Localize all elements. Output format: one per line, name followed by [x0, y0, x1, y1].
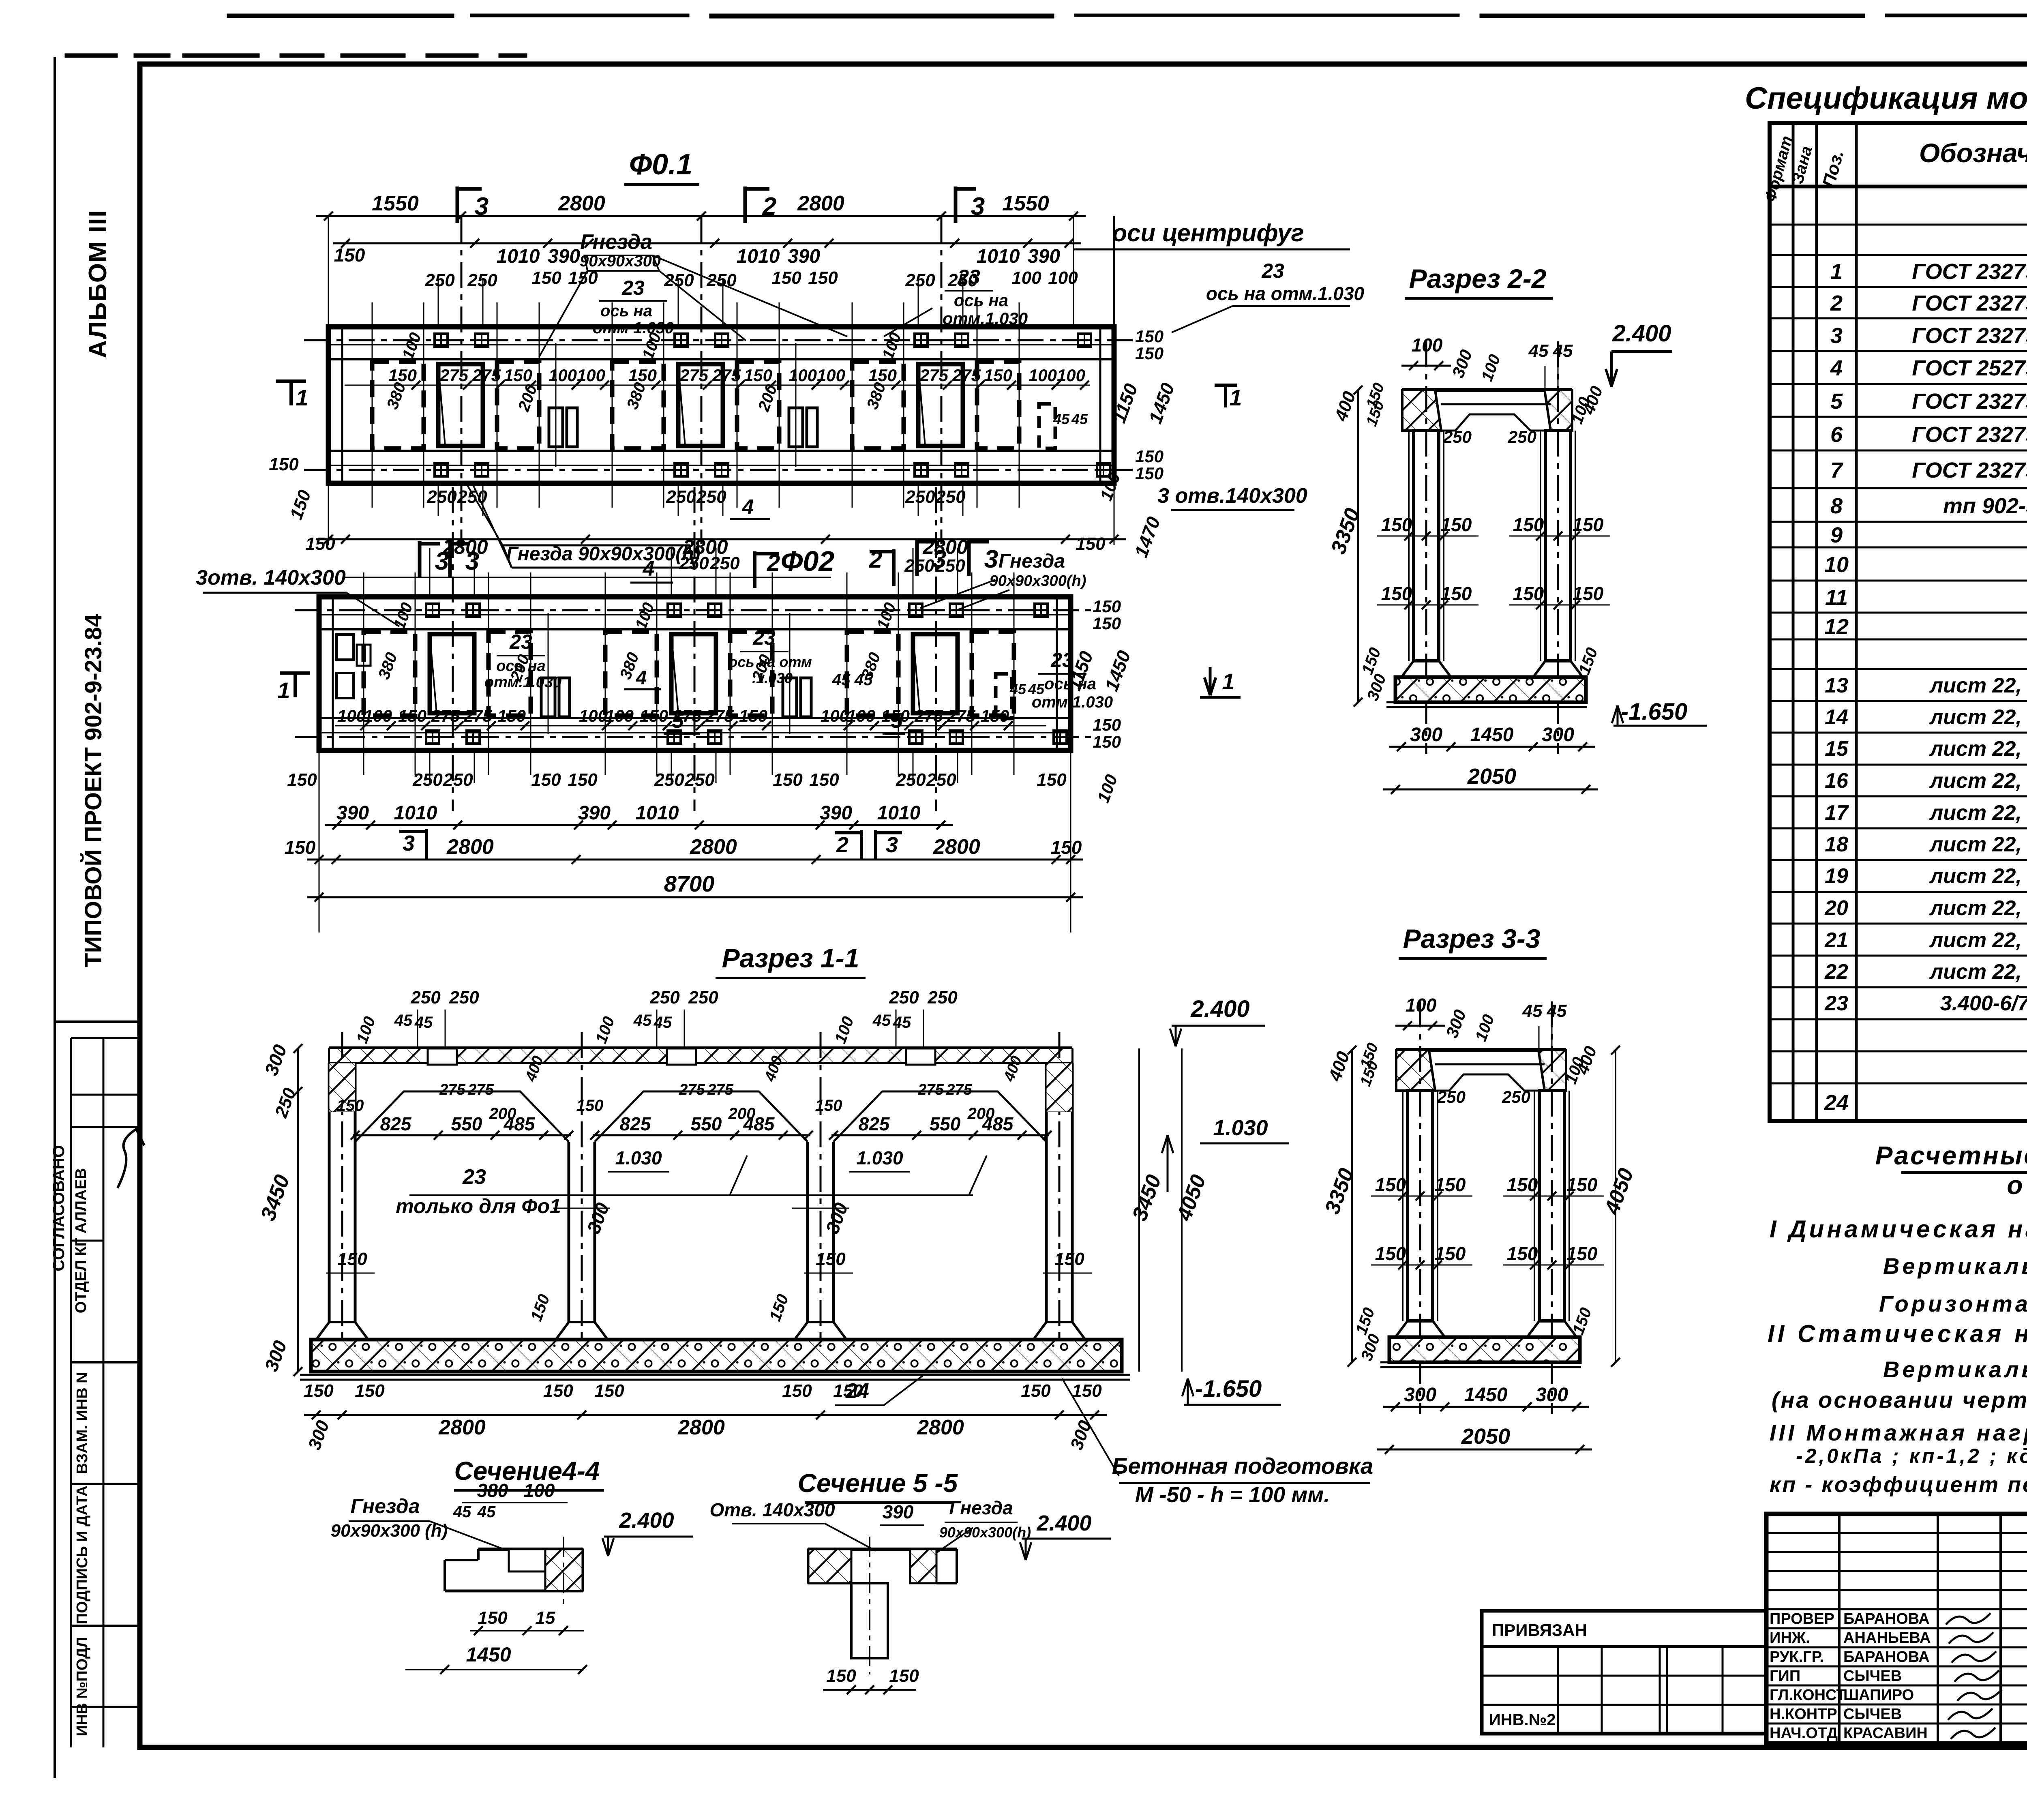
- svg-text:275: 275: [679, 1081, 705, 1098]
- title block outer frame: [1766, 1514, 2027, 1743]
- svg-text:200: 200: [728, 1105, 756, 1123]
- svg-text:ИНВ.№2: ИНВ.№2: [1489, 1711, 1556, 1729]
- svg-text:150: 150: [1566, 1174, 1598, 1195]
- plan F01 bay 2 extension verticals: [612, 302, 613, 508]
- svg-text:3: 3: [465, 547, 479, 575]
- svg-text:22: 22: [1824, 960, 1848, 984]
- svg-text:24: 24: [1824, 1091, 1849, 1115]
- svg-text:100: 100: [364, 706, 392, 725]
- svg-text:2800: 2800: [933, 835, 980, 859]
- svg-text:3: 3: [886, 833, 898, 857]
- svg-text:10: 10: [1824, 553, 1849, 577]
- svg-text:150: 150: [1435, 1174, 1466, 1195]
- svg-text:СОГЛАСОВАНО: СОГЛАСОВАНО: [50, 1145, 68, 1271]
- section 2-2 top slab: [1402, 388, 1572, 392]
- svg-text:(на основании чертежа завод: (на основании чертежа завода - изготовит…: [1772, 1387, 2027, 1413]
- svg-text:лист 22, 23: лист 22, 23: [1929, 737, 2027, 761]
- svg-text:III Монтажная нагрузка на: III Монтажная нагрузка на плите фундамен…: [1770, 1420, 2027, 1445]
- svg-text:лист 22, 23: лист 22, 23: [1929, 833, 2027, 856]
- svg-text:150: 150: [1135, 327, 1163, 346]
- svg-text:ГЛ.КОНСТ: ГЛ.КОНСТ: [1770, 1687, 1846, 1704]
- plan F01 bay 1 socket dashed left: [372, 362, 424, 448]
- svg-text:150: 150: [1507, 1174, 1538, 1195]
- svg-text:150: 150: [337, 1249, 367, 1269]
- plan F01 bay 2 socket dashed left: [612, 362, 664, 448]
- svg-text:3: 3: [984, 545, 998, 573]
- plan F01 bottom chain 2800: [316, 538, 1126, 540]
- section 3-3 columns: [1408, 1091, 1433, 1321]
- svg-text:РУК.ГР.: РУК.ГР.: [1770, 1649, 1824, 1666]
- svg-text:Гнезда: Гнезда: [580, 230, 652, 254]
- svg-text:отм 1.030: отм 1.030: [593, 319, 674, 337]
- svg-text:5: 5: [672, 709, 684, 733]
- svg-text:275: 275: [707, 1081, 733, 1098]
- svg-text:3.400-6/76: 3.400-6/76: [1940, 992, 2027, 1015]
- svg-text:1010: 1010: [636, 802, 679, 824]
- svg-text:250: 250: [1502, 1087, 1530, 1106]
- plan F01 inner edge lines: [328, 358, 1114, 360]
- svg-text:2800: 2800: [558, 192, 605, 215]
- svg-text:8700: 8700: [664, 871, 715, 896]
- section 2-2 vertical dim left: [1357, 390, 1359, 702]
- plan F02 mid socket 2: [783, 678, 797, 717]
- svg-text:ось на: ось на: [496, 658, 546, 675]
- plan F02 outline: [319, 597, 1071, 750]
- svg-text:2.400: 2.400: [1036, 1511, 1091, 1535]
- svg-text:150: 150: [1093, 597, 1121, 616]
- plan F02 otv holes left end: [336, 635, 354, 660]
- svg-text:45: 45: [872, 1012, 891, 1029]
- svg-text:250: 250: [457, 487, 487, 507]
- svg-text:550: 550: [451, 1113, 482, 1134]
- plan F02 bay 3 axis line: [935, 487, 937, 811]
- svg-text:250: 250: [412, 770, 443, 790]
- section 2-2 base slab: [1395, 677, 1586, 702]
- plan F02 bay 3 socket dashed right: [972, 632, 1014, 716]
- svg-text:250: 250: [654, 770, 684, 790]
- svg-text:150: 150: [1076, 534, 1106, 554]
- svg-text:275: 275: [947, 706, 976, 725]
- svg-text:ВЗАМ. ИНВ N: ВЗАМ. ИНВ N: [74, 1372, 91, 1474]
- svg-text:200: 200: [967, 1105, 995, 1123]
- svg-text:150: 150: [826, 1666, 856, 1686]
- svg-text:275: 275: [439, 1081, 465, 1098]
- svg-text:Ф0.1: Ф0.1: [629, 148, 692, 181]
- plan F02 lower centreline: [295, 736, 1095, 738]
- svg-text:300: 300: [1404, 1384, 1436, 1406]
- section 3-3 base slab: [1389, 1337, 1580, 1362]
- svg-text:250: 250: [1508, 427, 1536, 446]
- svg-text:100: 100: [1057, 366, 1085, 385]
- svg-text:Гнезда: Гнезда: [350, 1495, 420, 1518]
- svg-text:250: 250: [905, 487, 935, 507]
- svg-text:100: 100: [579, 706, 607, 725]
- svg-text:4: 4: [636, 667, 647, 689]
- svg-text:2050: 2050: [1467, 764, 1516, 789]
- svg-text:300: 300: [1536, 1384, 1568, 1406]
- svg-text:250: 250: [904, 556, 934, 576]
- plan F01 bay 1 axis line: [461, 217, 463, 544]
- section 2-2 column feet: [1401, 661, 1451, 677]
- plan F02 bay 1 axis line: [452, 487, 454, 811]
- svg-text:.1.030: .1.030: [752, 670, 793, 686]
- left strip signature: [118, 1129, 144, 1188]
- section 2-2 lean concrete line: [1386, 701, 1587, 703]
- svg-text:150: 150: [889, 1666, 919, 1686]
- svg-text:45: 45: [832, 671, 851, 689]
- plan F01 bay 2 socket dashed right: [737, 362, 779, 448]
- plan F01 mid socket 1: [549, 408, 563, 447]
- svg-text:2: 2: [1830, 291, 1843, 315]
- plan F01 bay 2 axis line: [701, 217, 703, 544]
- svg-text:ГИП: ГИП: [1770, 1668, 1800, 1685]
- svg-text:24: 24: [845, 1379, 869, 1403]
- svg-text:150: 150: [739, 706, 767, 725]
- svg-text:90х90х300(h): 90х90х300(h): [939, 1524, 1031, 1541]
- plan F02 bay 1 socket dashed left: [364, 632, 415, 716]
- svg-text:ИНВ №ПОДЛ: ИНВ №ПОДЛ: [74, 1637, 91, 1736]
- svg-text:150: 150: [1093, 732, 1121, 751]
- svg-text:2800: 2800: [797, 192, 844, 215]
- plan F02 interior dim line: [335, 725, 1046, 727]
- svg-text:150: 150: [1381, 583, 1412, 604]
- svg-text:отм.1.030: отм.1.030: [943, 309, 1028, 328]
- svg-text:1.030: 1.030: [615, 1147, 662, 1168]
- svg-text:1: 1: [1222, 669, 1234, 694]
- svg-text:Ф02: Ф02: [781, 545, 835, 577]
- svg-text:550: 550: [691, 1113, 722, 1134]
- svg-text:3 отв.140х300: 3 отв.140х300: [1157, 484, 1307, 508]
- svg-text:550: 550: [930, 1113, 961, 1134]
- plan F02 bay 3 extension verticals: [846, 572, 848, 775]
- svg-text:45: 45: [1553, 341, 1573, 361]
- plan F02 bay 2 socket dashed left: [605, 632, 657, 716]
- svg-text:4: 4: [1830, 356, 1843, 380]
- svg-text:100: 100: [847, 706, 875, 725]
- svg-text:1.030: 1.030: [856, 1147, 903, 1168]
- svg-text:250: 250: [889, 988, 919, 1008]
- plan F02 right end sockets: [996, 674, 1012, 718]
- svg-text:300: 300: [1410, 724, 1442, 746]
- svg-text:1: 1: [296, 385, 308, 410]
- svg-text:лист 22, 23: лист 22, 23: [1929, 801, 2027, 825]
- svg-text:150: 150: [497, 706, 526, 725]
- svg-text:1010: 1010: [737, 246, 780, 267]
- svg-text:23: 23: [957, 266, 980, 288]
- plan F01 bay 3 socket dashed right: [977, 362, 1019, 448]
- svg-text:250: 250: [926, 770, 956, 790]
- svg-text:ось на: ось на: [954, 291, 1008, 310]
- svg-text:Бетонная подготовка: Бетонная подготовка: [1112, 1453, 1373, 1479]
- svg-text:45: 45: [477, 1503, 496, 1521]
- svg-text:150: 150: [1513, 583, 1544, 604]
- svg-text:250: 250: [935, 487, 966, 507]
- svg-text:250: 250: [443, 770, 473, 790]
- plan F01 bay 2 pit solid: [678, 364, 723, 446]
- svg-text:150: 150: [531, 770, 561, 790]
- plan F02 left marker 1: [280, 671, 310, 675]
- svg-text:2050: 2050: [1461, 1424, 1510, 1449]
- svg-text:ГОСТ 25279-78: ГОСТ 25279-78: [1912, 356, 2027, 380]
- svg-text:380: 380: [477, 1480, 508, 1501]
- svg-text:150: 150: [305, 534, 335, 554]
- svg-text:Вертикальная -0,20 кН ;: Вертикальная -0,20 кН ; кп = 4,0 ; кд = …: [1883, 1253, 2027, 1279]
- svg-text:250: 250: [449, 988, 479, 1008]
- svg-text:150: 150: [543, 1381, 573, 1401]
- plan F01 upper centreline: [304, 339, 1138, 341]
- svg-text:45: 45: [394, 1012, 413, 1029]
- section 2-2 columns: [1414, 431, 1439, 661]
- plan F01 right end sockets: [1039, 404, 1055, 448]
- svg-text:15: 15: [1825, 737, 1849, 761]
- svg-text:-1.650: -1.650: [1195, 1376, 1262, 1402]
- svg-text:825: 825: [620, 1113, 651, 1134]
- svg-text:ГОСТ 23279-78: ГОСТ 23279-78: [1912, 389, 2027, 414]
- svg-text:150: 150: [568, 770, 598, 790]
- plan F01 bay 3 embed plates: [915, 334, 928, 347]
- section 2-2 bottom dims: [1389, 746, 1595, 748]
- svg-text:1010: 1010: [394, 802, 437, 824]
- svg-text:150: 150: [808, 268, 838, 288]
- svg-text:150: 150: [771, 268, 801, 288]
- sechenie 5-5 body: [808, 1548, 957, 1551]
- plan F02 bay 3 socket dashed left: [847, 632, 898, 716]
- svg-text:100: 100: [789, 366, 817, 385]
- svg-text:100: 100: [1406, 995, 1437, 1016]
- section 1-1 notches: [428, 1048, 457, 1065]
- svg-text:250: 250: [905, 270, 935, 290]
- svg-text:100: 100: [1028, 366, 1057, 385]
- plan F01 edge extension lines: [328, 216, 329, 327]
- svg-text:1450: 1450: [1470, 724, 1514, 746]
- svg-text:ГОСТ 23279-78: ГОСТ 23279-78: [1912, 259, 2027, 284]
- plan F02 bay 1 socket dashed right: [489, 632, 531, 716]
- svg-text:2800: 2800: [917, 1416, 964, 1439]
- plan F01 right marker 1: [1215, 384, 1237, 387]
- svg-text:11: 11: [1825, 585, 1848, 610]
- svg-text:7: 7: [1830, 458, 1844, 482]
- svg-text:6: 6: [1830, 422, 1843, 447]
- svg-text:лист 22, 23: лист 22, 23: [1929, 674, 2027, 697]
- plan F02 bay 2 pit solid: [671, 634, 716, 713]
- svg-text:45: 45: [1522, 1001, 1543, 1021]
- svg-text:150: 150: [1135, 447, 1163, 466]
- svg-text:15: 15: [536, 1608, 555, 1628]
- svg-text:275: 275: [919, 366, 949, 385]
- svg-text:лист 22, 23: лист 22, 23: [1929, 896, 2027, 920]
- svg-text:1.030: 1.030: [1213, 1116, 1268, 1140]
- plan F02 extension lines: [319, 750, 320, 933]
- section 1-1 columns: [328, 1063, 331, 1322]
- svg-text:12: 12: [1824, 615, 1849, 639]
- svg-text:45: 45: [1528, 341, 1549, 361]
- svg-text:1550: 1550: [1002, 192, 1049, 215]
- svg-text:275: 275: [439, 366, 469, 385]
- section 1-1 top slab: [329, 1046, 1072, 1050]
- svg-text:II Статическая нагрузка:: II Статическая нагрузка:: [1768, 1320, 2027, 1347]
- svg-text:ось на: ось на: [1044, 675, 1096, 693]
- svg-text:45: 45: [633, 1012, 652, 1029]
- svg-text:М -50 - h = 100 мм.: М -50 - h = 100 мм.: [1135, 1483, 1330, 1507]
- section 1-1 elevation 1.030 right: [1167, 1135, 1169, 1192]
- top scan smudge line: [65, 14, 2027, 58]
- svg-text:БАРАНОВА: БАРАНОВА: [1843, 1649, 1930, 1666]
- svg-text:23: 23: [509, 630, 532, 653]
- svg-text:АЛЬБОМ III: АЛЬБОМ III: [84, 210, 112, 358]
- svg-text:ось на: ось на: [600, 302, 652, 320]
- svg-text:150: 150: [773, 770, 803, 790]
- svg-text:13: 13: [1825, 674, 1848, 697]
- svg-text:лист 22, 23: лист 22, 23: [1929, 769, 2027, 793]
- svg-text:лист 22, 23: лист 22, 23: [1929, 705, 2027, 729]
- svg-text:отм.1.030: отм.1.030: [484, 674, 561, 691]
- svg-text:150: 150: [1573, 514, 1604, 535]
- svg-text:275: 275: [712, 366, 741, 385]
- plan F01 bay 3 extension verticals: [852, 302, 853, 508]
- svg-text:150: 150: [531, 268, 561, 288]
- svg-text:300: 300: [1542, 724, 1574, 746]
- svg-text:ГОСТ 23279-78: ГОСТ 23279-78: [1912, 324, 2027, 348]
- svg-text:390: 390: [883, 1501, 914, 1522]
- svg-text:150: 150: [1507, 1243, 1538, 1264]
- svg-text:150: 150: [640, 706, 668, 725]
- svg-text:275: 275: [952, 366, 981, 385]
- svg-text:100: 100: [821, 706, 849, 725]
- plan F02 bay 2 embed plates: [668, 604, 681, 617]
- outer sheet edge line left: [54, 57, 56, 1778]
- svg-text:390: 390: [820, 802, 852, 824]
- svg-text:лист 22, 23: лист 22, 23: [1929, 864, 2027, 888]
- svg-text:2.400: 2.400: [1612, 320, 1671, 347]
- svg-text:275: 275: [472, 366, 501, 385]
- svg-text:ТИПОВОЙ ПРОЕКТ 902-9-23.84: ТИПОВОЙ ПРОЕКТ 902-9-23.84: [80, 614, 107, 967]
- plan F02 chain 8700: [307, 896, 1083, 898]
- plan F02 bay 2 socket dashed right: [730, 632, 772, 716]
- svg-text:150: 150: [478, 1608, 508, 1628]
- svg-text:150: 150: [782, 1381, 812, 1401]
- svg-text:150: 150: [337, 1097, 364, 1115]
- svg-text:100: 100: [1412, 334, 1443, 356]
- section 1-1 base slab: [311, 1340, 1122, 1372]
- svg-text:Разрез 3-3: Разрез 3-3: [1403, 924, 1541, 954]
- plan F02 chain 2800: [307, 859, 1083, 861]
- svg-text:150: 150: [816, 1249, 846, 1269]
- svg-text:только для Фо1: только для Фо1: [396, 1195, 561, 1218]
- svg-text:45: 45: [1071, 411, 1088, 427]
- svg-text:ПОДПИСЬ И ДАТА: ПОДПИСЬ И ДАТА: [74, 1486, 91, 1624]
- svg-text:3отв. 140х300: 3отв. 140х300: [196, 566, 346, 590]
- svg-text:250: 250: [666, 487, 696, 507]
- plan F01 bay 1 embed plates: [435, 334, 448, 347]
- svg-text:100: 100: [577, 366, 605, 385]
- svg-text:3: 3: [1830, 324, 1843, 348]
- svg-text:лист 22, 23: лист 22, 23: [1929, 960, 2027, 984]
- svg-text:2800: 2800: [677, 1416, 725, 1439]
- section 1-1 top slab hatch strip: [329, 1048, 1072, 1063]
- plan F01 bay 2 embed plates: [675, 334, 688, 347]
- svg-text:100: 100: [524, 1480, 555, 1501]
- svg-text:150: 150: [1566, 1243, 1598, 1264]
- svg-text:ПРИВЯЗАН: ПРИВЯЗАН: [1492, 1621, 1587, 1640]
- svg-text:АНАНЬЕВА: АНАНЬЕВА: [1843, 1629, 1931, 1646]
- svg-text:250: 250: [927, 988, 958, 1008]
- section 1-1 span dims 825-550-485: [353, 1134, 571, 1136]
- plan F01 interior dim line: [345, 385, 1090, 386]
- svg-text:отм.1.030: отм.1.030: [1032, 693, 1113, 711]
- svg-text:ОТДЕЛ КГ АЛЛАЕВ: ОТДЕЛ КГ АЛЛАЕВ: [73, 1168, 90, 1313]
- svg-text:Сечение 5 -5: Сечение 5 -5: [798, 1468, 958, 1498]
- svg-text:2800: 2800: [690, 835, 737, 859]
- plan F02 inner edge lines: [319, 628, 1071, 630]
- svg-text:150: 150: [984, 366, 1012, 385]
- svg-text:275: 275: [431, 706, 460, 725]
- svg-text:100: 100: [1011, 268, 1041, 288]
- svg-text:150: 150: [1375, 1174, 1406, 1195]
- svg-text:2.400: 2.400: [619, 1508, 674, 1533]
- svg-text:1450: 1450: [1464, 1384, 1508, 1406]
- svg-text:150: 150: [334, 244, 365, 266]
- svg-text:23: 23: [752, 626, 776, 649]
- svg-text:150: 150: [1435, 1243, 1466, 1264]
- svg-text:150: 150: [304, 1381, 334, 1401]
- svg-text:лист 22, 23: лист 22, 23: [1929, 928, 2027, 952]
- plan F02 bay 2 axis line: [694, 487, 696, 811]
- svg-text:СЫЧЕВ: СЫЧЕВ: [1843, 1668, 1902, 1685]
- svg-text:150: 150: [1135, 464, 1163, 483]
- svg-text:275: 275: [463, 706, 493, 725]
- svg-text:90х90х300 (h): 90х90х300 (h): [331, 1521, 448, 1541]
- svg-text:150: 150: [269, 454, 299, 474]
- svg-text:СЫЧЕВ: СЫЧЕВ: [1843, 1706, 1902, 1723]
- svg-text:Отв. 140х300: Отв. 140х300: [709, 1499, 835, 1520]
- svg-text:23: 23: [1261, 259, 1284, 282]
- svg-text:Разрез 1-1: Разрез 1-1: [722, 943, 859, 973]
- svg-text:45: 45: [1547, 1001, 1567, 1021]
- svg-text:150: 150: [576, 1097, 604, 1115]
- svg-text:БАРАНОВА: БАРАНОВА: [1843, 1610, 1930, 1627]
- svg-text:23: 23: [1824, 992, 1848, 1015]
- section 1-1 edge column hatches: [329, 1063, 355, 1112]
- svg-text:I Динамическая нагрузка:: I Динамическая нагрузка:: [1770, 1215, 2027, 1243]
- svg-text:Разрез 2-2: Разрез 2-2: [1409, 264, 1547, 294]
- section 1-1 soffit and haunches: [355, 1091, 569, 1142]
- plan F02 right marker 1: [1209, 667, 1212, 695]
- svg-text:ось на отм.1.030: ось на отм.1.030: [1206, 283, 1365, 304]
- plan F01 bay 1 pit solid: [438, 364, 483, 446]
- left strip stamp boxes: [55, 1020, 140, 1023]
- plan F01 chain 1010-390 row: [333, 242, 1081, 244]
- svg-text:250: 250: [709, 553, 740, 573]
- svg-text:150: 150: [1072, 1381, 1102, 1401]
- plan F02 bay 1 pit solid: [430, 634, 474, 713]
- svg-text:250: 250: [649, 988, 680, 1008]
- svg-text:4: 4: [742, 495, 754, 519]
- svg-text:825: 825: [859, 1113, 890, 1134]
- svg-text:5: 5: [891, 709, 903, 733]
- svg-text:20: 20: [1824, 896, 1848, 920]
- svg-text:390: 390: [1028, 246, 1060, 267]
- svg-text:-2,0кПа ; кп-1,2 ; кд: -2,0кПа ; кп-1,2 ; кд = 1. (На основании…: [1796, 1445, 2027, 1467]
- svg-text:Обозначение: Обозначение: [1919, 138, 2027, 168]
- svg-text:90х90х300(h): 90х90х300(h): [990, 572, 1086, 590]
- svg-text:150: 150: [285, 837, 316, 858]
- svg-text:ГОСТ 23279-78: ГОСТ 23279-78: [1912, 458, 2027, 482]
- svg-text:-1.650: -1.650: [1621, 699, 1687, 725]
- svg-text:2: 2: [836, 833, 849, 857]
- svg-text:275: 275: [705, 706, 734, 725]
- plan F01 bay 1 socket dashed right: [497, 362, 539, 448]
- svg-text:150: 150: [809, 770, 839, 790]
